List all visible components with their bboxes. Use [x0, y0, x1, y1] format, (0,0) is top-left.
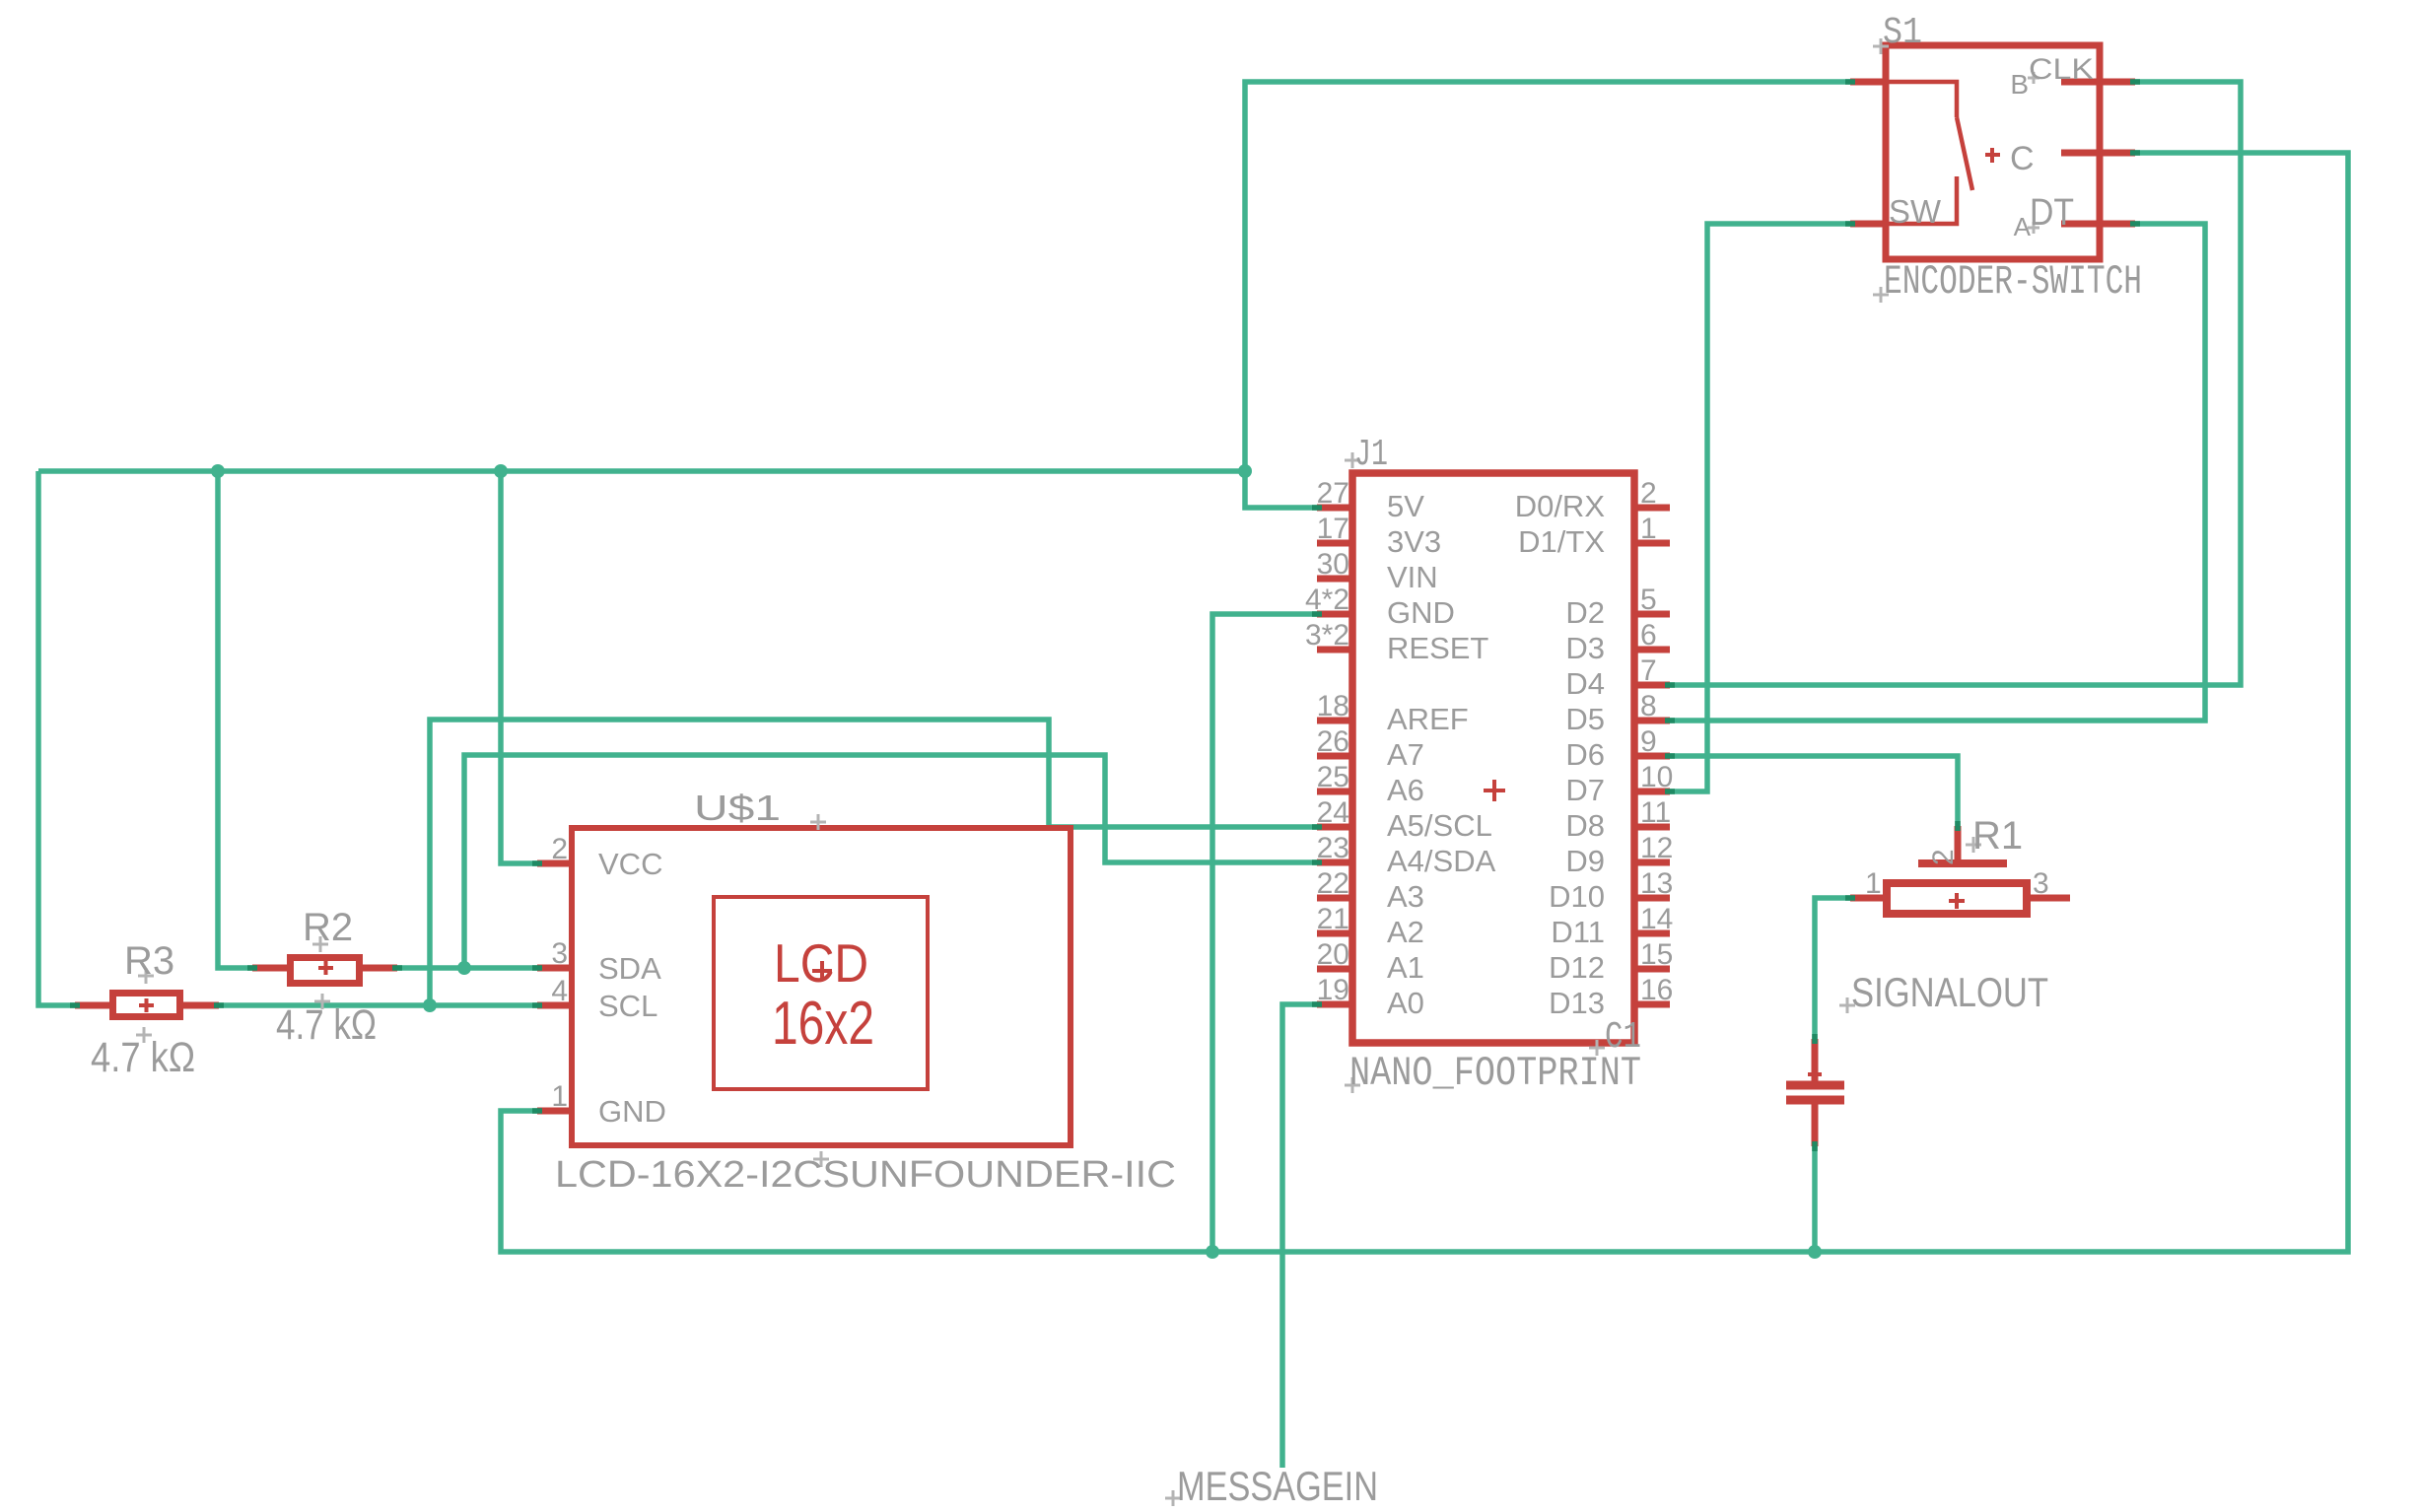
wire-pin overlap tips — [70, 82, 2140, 1151]
svg-text:J1: J1 — [1354, 434, 1388, 476]
U$1 origin cross — [812, 961, 832, 981]
J1 pin 5 stub — [1634, 611, 1670, 618]
svg-text:12: 12 — [1640, 832, 1673, 864]
R3 label origin — [138, 968, 154, 984]
svg-text:3*2: 3*2 — [1305, 619, 1349, 652]
svg-text:3V3: 3V3 — [1387, 524, 1441, 559]
svg-text:R1: R1 — [1972, 814, 2023, 858]
svg-text:21: 21 — [1317, 903, 1349, 935]
svg-text:C1: C1 — [1605, 1016, 1641, 1059]
J1 pin 14 stub — [1634, 930, 1670, 937]
svg-text:LCD: LCD — [774, 932, 868, 994]
J1 left pin numbers — [1305, 477, 1349, 1006]
C1 label origin — [1589, 1040, 1605, 1056]
svg-text:A: A — [2014, 212, 2032, 241]
svg-text:LCD-16X2-I2CSUNFOUNDER-IIC: LCD-16X2-I2CSUNFOUNDER-IIC — [555, 1154, 1176, 1196]
U$1 inner display frame — [714, 897, 928, 1089]
U$1 label origin — [810, 814, 826, 830]
svg-text:D13: D13 — [1549, 986, 1605, 1020]
svg-text:5: 5 — [1640, 584, 1657, 616]
SIGNALOUT label origin — [1839, 997, 1855, 1013]
svg-text:26: 26 — [1317, 725, 1349, 758]
S1 pin C stub — [2061, 150, 2135, 157]
encoder S1 body — [1886, 45, 2100, 259]
wire net SCL: riser to J1 pin 24 A5/SCL — [430, 720, 1317, 1005]
svg-text:A0: A0 — [1387, 986, 1424, 1020]
svg-text:D12: D12 — [1549, 950, 1605, 985]
LCD module U$1 body — [572, 828, 1071, 1145]
svg-text:DT: DT — [2030, 192, 2074, 234]
svg-text:25: 25 — [1317, 761, 1349, 793]
J1 pin 26 stub — [1317, 753, 1352, 760]
J1 pin 17 stub — [1317, 540, 1352, 547]
C1 bottom lead — [1812, 1104, 1819, 1146]
J1 pin 11 stub — [1634, 824, 1670, 831]
junction on SCL net — [423, 998, 437, 1012]
S1 pin DT stub — [2061, 221, 2135, 228]
svg-text:AREF: AREF — [1387, 702, 1469, 736]
MESSAGEIN label origin — [1165, 1490, 1181, 1506]
svg-text:17: 17 — [1317, 513, 1349, 545]
R2 origin cross — [318, 961, 333, 975]
svg-text:A4/SDA: A4/SDA — [1387, 844, 1496, 878]
R1 pin 3 lead — [2027, 895, 2070, 902]
svg-text:NANO_FOOTPRINT: NANO_FOOTPRINT — [1349, 1050, 1641, 1097]
R2 label origin — [312, 936, 328, 952]
J1 pin 6 stub — [1634, 647, 1670, 653]
svg-text:22: 22 — [1317, 867, 1349, 900]
S1 pin CLK stub — [2061, 79, 2135, 86]
svg-text:11: 11 — [1640, 796, 1671, 829]
capacitor C1 bottom plate — [1786, 1096, 1844, 1105]
J1 pin 10 stub — [1634, 789, 1670, 795]
wire net 5V: rail — [38, 468, 1245, 474]
resistor R2 body — [291, 958, 360, 984]
J1 pin 13 stub — [1634, 895, 1670, 902]
J1 pin 7 stub — [1634, 682, 1670, 689]
U$1 pin numbers — [551, 833, 568, 1113]
wire net 5V: riser to encoder pin B — [1245, 82, 1850, 471]
J1 pin 15 stub — [1634, 966, 1670, 973]
J1 pin 27 stub — [1317, 505, 1352, 512]
S1 pin B stub — [1850, 79, 1886, 86]
svg-text:D10: D10 — [1549, 879, 1605, 914]
svg-text:13: 13 — [1640, 867, 1673, 900]
svg-text:5V: 5V — [1387, 489, 1424, 523]
svg-text:D7: D7 — [1565, 773, 1605, 807]
junction on 5V rail at R2 drop — [211, 464, 225, 478]
J1 pin 4*2 stub — [1317, 611, 1352, 618]
wire net SIGNALOUT: R1 pin1 to C1 — [1815, 898, 1850, 1039]
svg-text:1: 1 — [551, 1080, 568, 1113]
wire net 5V: drop to LCD VCC — [501, 471, 537, 863]
S1 switch pole from SW — [1886, 176, 1957, 224]
svg-text:2: 2 — [551, 833, 568, 865]
wire net SW: encoder SW to J1 D7 — [1670, 224, 1850, 791]
svg-text:10: 10 — [1640, 761, 1673, 793]
svg-text:D6: D6 — [1565, 737, 1605, 772]
S1 switch contact from B — [1886, 82, 1957, 117]
NANO_FOOTPRINT label origin — [1345, 1077, 1360, 1093]
svg-text:4: 4 — [551, 975, 568, 1007]
svg-text:27: 27 — [1317, 477, 1349, 510]
svg-text:1: 1 — [1640, 513, 1657, 545]
svg-text:VIN: VIN — [1387, 560, 1438, 594]
svg-text:U$1: U$1 — [694, 788, 781, 828]
R2 right lead — [361, 965, 397, 972]
svg-text:14: 14 — [1640, 903, 1673, 935]
svg-text:2: 2 — [1927, 849, 1960, 865]
wire net 5V: left drop to R3 — [38, 471, 75, 1005]
U$1 pin 3 SDA stub — [537, 965, 572, 972]
svg-text:B: B — [2010, 69, 2029, 100]
connector J1 body (NANO_FOOTPRINT) — [1352, 473, 1634, 1043]
R3 right lead — [182, 1002, 219, 1009]
svg-text:4*2: 4*2 — [1305, 584, 1349, 616]
junction on SDA net — [457, 961, 471, 975]
J1 pin 20 stub — [1317, 966, 1352, 973]
R1 wiper bar — [1918, 859, 2007, 867]
svg-text:19: 19 — [1317, 974, 1349, 1006]
J1 pin 30 stub — [1317, 576, 1352, 583]
svg-text:D9: D9 — [1565, 844, 1605, 878]
J1 pin 2 stub — [1634, 505, 1670, 512]
C1 origin cross — [1808, 1067, 1822, 1081]
J1 pin 23 stub — [1317, 859, 1352, 866]
J1 pin 25 stub — [1317, 789, 1352, 795]
svg-text:D11: D11 — [1551, 915, 1605, 949]
svg-text:2: 2 — [1640, 477, 1657, 510]
U$1 pin 4 SCL stub — [537, 1002, 572, 1009]
svg-text:23: 23 — [1317, 832, 1349, 864]
J1 pin 16 stub — [1634, 1001, 1670, 1008]
svg-text:D5: D5 — [1565, 702, 1605, 736]
S1 label origin — [1873, 38, 1889, 54]
svg-text:16: 16 — [1640, 974, 1673, 1006]
junction on 5V rail at encoder riser — [1238, 464, 1252, 478]
svg-text:3: 3 — [2033, 867, 2049, 900]
svg-text:MESSAGEIN: MESSAGEIN — [1177, 1463, 1378, 1509]
R3 left lead — [75, 1002, 109, 1009]
resistor R3 body — [113, 994, 180, 1017]
R2 left lead — [252, 965, 289, 972]
svg-text:16x2: 16x2 — [772, 990, 874, 1058]
svg-text:D8: D8 — [1565, 808, 1605, 843]
J1 pin 12 stub — [1634, 859, 1670, 866]
svg-text:8: 8 — [1640, 690, 1657, 722]
J1 pin 9 stub — [1634, 753, 1670, 760]
J1 right pin numbers — [1640, 477, 1673, 1006]
wire net 5V: drop to R2 — [218, 471, 252, 968]
svg-text:A3: A3 — [1387, 879, 1424, 914]
svg-text:3: 3 — [551, 937, 568, 970]
svg-text:A6: A6 — [1387, 773, 1424, 807]
R3 origin cross — [139, 998, 154, 1012]
svg-text:D0/RX: D0/RX — [1515, 489, 1606, 523]
R1 pin 2 wiper lead — [1955, 826, 1962, 863]
wire net GND: riser to J1 pin 4*2 — [1212, 614, 1317, 1252]
svg-text:C: C — [2010, 140, 2035, 177]
svg-text:15: 15 — [1640, 938, 1673, 971]
svg-text:A2: A2 — [1387, 915, 1424, 949]
S1 switch lever — [1957, 117, 1972, 190]
ENCODER-SWITCH label origin — [1873, 287, 1889, 303]
wire net SDA: R2 to LCD SDA — [397, 965, 537, 971]
R1 label origin — [1966, 837, 1981, 853]
wire net SCL: R3 to LCD SCL — [219, 1002, 537, 1008]
svg-text:GND: GND — [598, 1094, 666, 1129]
R1 pin 1 lead — [1850, 895, 1887, 902]
svg-text:SIGNALOUT: SIGNALOUT — [1851, 969, 2048, 1015]
svg-text:4.7 kΩ: 4.7 kΩ — [276, 1001, 377, 1049]
LCD device name origin — [813, 1151, 829, 1167]
svg-text:D2: D2 — [1565, 595, 1605, 630]
J1 right pin names — [1515, 489, 1606, 1020]
svg-text:S1: S1 — [1883, 12, 1922, 54]
wire net GND: stub to C1 — [1812, 1146, 1818, 1252]
R3 value origin — [136, 1027, 152, 1043]
svg-text:SCL: SCL — [598, 989, 657, 1023]
svg-text:D1/TX: D1/TX — [1518, 524, 1605, 559]
svg-text:30: 30 — [1317, 548, 1349, 581]
J1 pin 24 stub — [1317, 824, 1352, 831]
J1 pin 3*2 stub — [1317, 647, 1352, 653]
wire net GND: LCD GND bottom rail to encoder C — [501, 153, 2348, 1252]
S1 pin SW stub — [1850, 221, 1886, 228]
J1 pin 1 stub — [1634, 540, 1670, 547]
U$1 pin 2 VCC stub — [537, 860, 572, 867]
J1 label origin — [1345, 452, 1360, 468]
J1 pin 21 stub — [1317, 930, 1352, 937]
svg-text:R2: R2 — [303, 906, 353, 949]
R2 value origin — [314, 994, 330, 1009]
J1 pin 8 stub — [1634, 718, 1670, 724]
R1 origin cross — [1949, 893, 1965, 909]
svg-text:D3: D3 — [1565, 631, 1605, 665]
wire net 5V: to J1 pin 27 — [1245, 471, 1317, 508]
svg-text:4.7 kΩ: 4.7 kΩ — [91, 1034, 195, 1081]
svg-text:9: 9 — [1640, 725, 1657, 758]
svg-text:CLK: CLK — [2029, 53, 2094, 86]
junction on GND rail at J1 riser — [1206, 1245, 1219, 1259]
J1 pin 18 stub — [1317, 718, 1352, 724]
J1 pin 22 stub — [1317, 895, 1352, 902]
svg-text:7: 7 — [1640, 654, 1657, 687]
potentiometer R1 body — [1887, 883, 2027, 914]
svg-text:1: 1 — [1865, 867, 1882, 900]
svg-text:ENCODER-SWITCH: ENCODER-SWITCH — [1884, 258, 2142, 306]
capacitor C1 top plate — [1786, 1081, 1844, 1090]
DT label origin — [2028, 222, 2039, 234]
svg-text:24: 24 — [1317, 796, 1349, 829]
wire net D6 to R1 wiper — [1670, 756, 1958, 826]
svg-text:SDA: SDA — [598, 951, 661, 986]
wire net CLK: encoder CLK to J1 D4 — [1670, 82, 2241, 685]
C1 top lead — [1812, 1039, 1819, 1081]
S1 origin cross — [1985, 148, 2000, 163]
CLK label origin — [2028, 72, 2039, 84]
svg-text:20: 20 — [1317, 938, 1349, 971]
wire net DT: encoder DT to J1 D5 — [1670, 224, 2205, 721]
svg-text:R3: R3 — [124, 939, 174, 983]
svg-text:GND: GND — [1387, 595, 1455, 630]
svg-text:A7: A7 — [1387, 737, 1424, 772]
svg-text:RESET: RESET — [1387, 631, 1488, 665]
svg-text:A1: A1 — [1387, 950, 1424, 985]
wire net MESSAGEIN: from J1 pin 19 A0 — [1282, 1004, 1317, 1468]
J1 origin cross — [1484, 780, 1505, 801]
svg-text:D4: D4 — [1565, 666, 1605, 701]
svg-text:SW: SW — [1889, 193, 1942, 230]
J1 pin 19 stub — [1317, 1001, 1352, 1008]
svg-text:18: 18 — [1317, 690, 1349, 722]
J1 left pin names — [1387, 489, 1496, 1020]
junction on 5V rail at VCC drop — [494, 464, 508, 478]
svg-text:VCC: VCC — [598, 847, 662, 881]
U$1 pin 1 GND stub — [537, 1108, 572, 1115]
svg-text:A5/SCL: A5/SCL — [1387, 808, 1492, 843]
wire net SDA: riser to J1 pin 23 A4/SDA — [464, 755, 1317, 968]
svg-text:6: 6 — [1640, 619, 1657, 652]
junction on GND rail at C1 — [1808, 1245, 1822, 1259]
